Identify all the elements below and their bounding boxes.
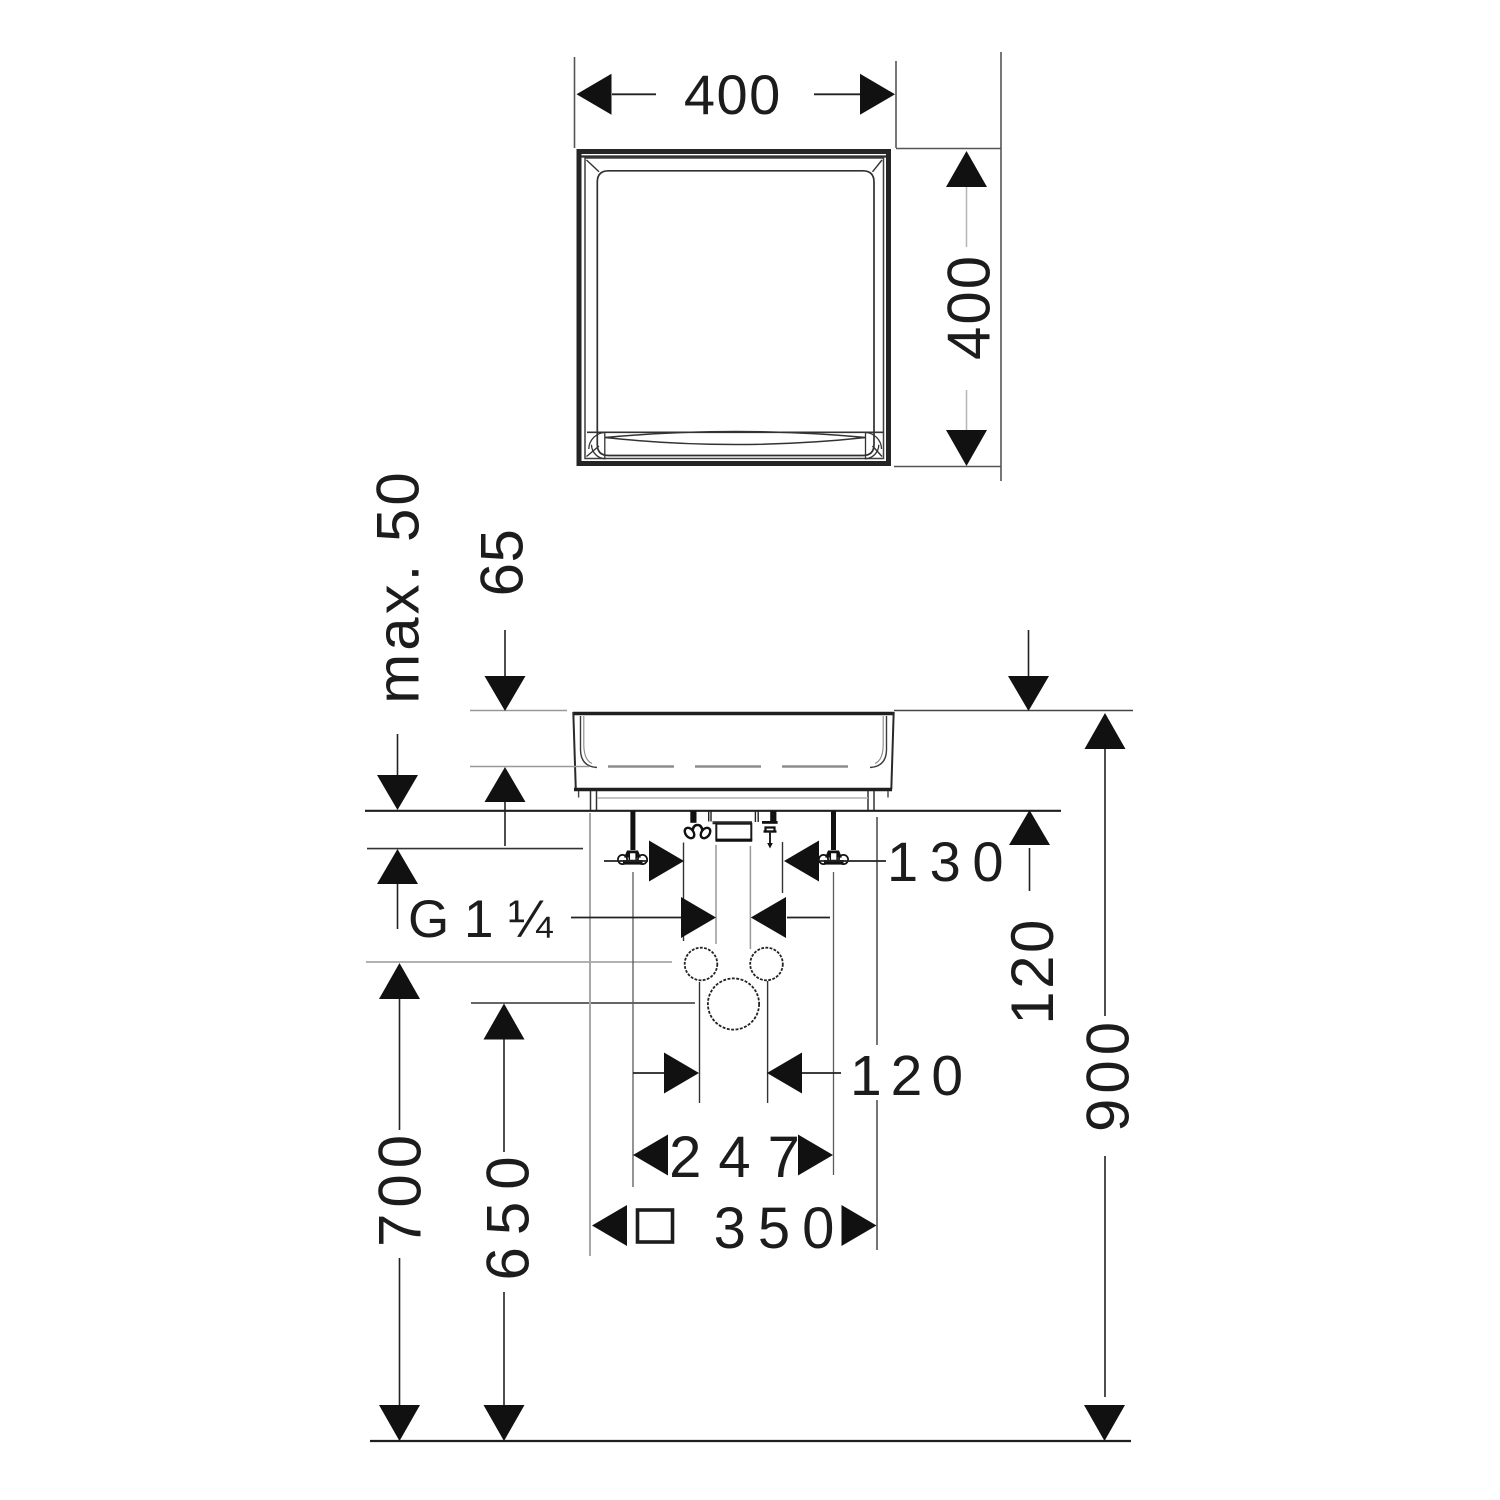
dimension G 1 1/4: dimension line — [571, 917, 830, 919]
plan view: bowl floor corner arcs right — [865, 432, 882, 459]
svg-text:120: 120 — [850, 1044, 972, 1108]
dimension 120: left arrowhead — [664, 1053, 699, 1094]
dimension 130: right arrowhead — [784, 841, 819, 882]
faucet hole right (dashed circle) — [750, 948, 783, 981]
dimension G 1 1/4: right arrowhead — [751, 897, 786, 938]
elevation: basin right inner wall curve — [870, 716, 887, 768]
drain: right wing nut stem tip — [767, 843, 773, 849]
dimension 400 (right height): bottom extension line — [894, 466, 1001, 468]
drain: tailpiece nut box — [716, 824, 751, 840]
drain: right wing nut stem — [769, 832, 771, 844]
plan view: corner chamfer BR — [873, 446, 883, 457]
elevation: basin left outer wall — [573, 712, 576, 790]
dimension 120 right: upper shaft and down arrowhead — [1028, 630, 1030, 678]
dimension 400 (right height): outer boundary line — [1000, 52, 1002, 481]
dimension 120: dimension line — [633, 1072, 841, 1074]
dimension G 1 1/4: left arrowhead — [681, 897, 716, 938]
level line: drain center — [471, 1002, 695, 1004]
svg-text:650: 650 — [475, 1144, 542, 1280]
svg-text:130: 130 — [887, 830, 1015, 893]
elevation: basin bottom edge — [574, 788, 892, 791]
dimension 700: value label — [367, 1129, 434, 1247]
svg-text:400: 400 — [684, 63, 782, 126]
dimension 650: up arrowhead at drain level — [484, 1004, 525, 1040]
dimension 650: value label — [475, 1144, 542, 1280]
drain: right mounting rod — [770, 811, 776, 824]
dimension 400 (right height): top arrowhead — [946, 151, 987, 187]
svg-text:65: 65 — [469, 529, 536, 597]
level line: faucet holes — [366, 961, 672, 963]
elevation: basin right rim inner line — [875, 716, 883, 764]
plan view: basin outer rim — [579, 152, 889, 464]
dimension 400 (top width): left extension line — [574, 57, 576, 148]
dimension 120: right arrowhead — [767, 1053, 802, 1094]
dimension 900: up arrowhead at basin top level — [1085, 713, 1126, 749]
plan view: corner chamfer BL — [587, 446, 600, 457]
dimension 400 (right height): bottom arrowhead — [946, 430, 987, 466]
bolt right: wing nut — [819, 851, 848, 865]
bolt right: shaft — [831, 811, 836, 850]
extension line: 130 left — [683, 843, 685, 942]
plan view: bowl floor corner arcs left — [589, 432, 606, 459]
elevation: basin right outer wall — [891, 712, 893, 790]
elevation: basin top edge — [573, 712, 894, 716]
dimension 400 (right height): dimension line — [966, 187, 968, 430]
floor line — [370, 1440, 1131, 1442]
dimension 65: lower shaft and up arrowhead — [504, 802, 506, 846]
drain: flange — [713, 822, 753, 824]
dimension 400 (top width): right extension line — [895, 61, 897, 148]
elevation: base outer stub left — [578, 791, 580, 798]
dimension 400 (top): right arrowhead — [860, 74, 895, 115]
dimension max. 50: upper shaft and down arrowhead — [397, 734, 399, 778]
dimension 900: down arrowhead at floor — [1084, 1405, 1125, 1441]
elevation: base shadow line — [597, 797, 868, 799]
drain: body lines left pair — [709, 811, 711, 822]
level line: basin top right — [894, 710, 1133, 712]
plan view: bowl floor slope curve upper — [605, 432, 866, 438]
dimension 65: upper shaft and down arrowhead — [504, 630, 506, 678]
dimension 350: left arrowhead — [592, 1205, 627, 1246]
elevation: hidden bowl bottom dashed line — [608, 765, 853, 767]
dimension 120 right: lower shaft and up arrowhead — [1029, 848, 1031, 891]
dimension 700: down arrowhead at floor — [379, 1405, 420, 1441]
elevation: base foot right lines — [868, 791, 874, 810]
level line: bowl bottom left — [470, 766, 589, 768]
extension line: 120 right (below faucet hole) — [767, 981, 769, 1103]
dimension 350: square symbol — [638, 1210, 673, 1242]
svg-text:G 1 ¼: G 1 ¼ — [408, 890, 553, 949]
dimension 650: down arrowhead at floor — [484, 1405, 525, 1441]
dimension 400 (right height): value label — [936, 254, 1003, 360]
dimension 400 (top): dimension line — [612, 93, 861, 95]
drain: tailpiece nut box bottom edge — [716, 839, 753, 842]
dimension 247: right arrowhead — [798, 1135, 833, 1176]
elevation: base outer stub right — [887, 791, 889, 798]
dimension max. 50: value label — [365, 469, 432, 703]
dimension 130: dimension line — [604, 860, 886, 862]
plan view: corner chamfer TL — [587, 160, 600, 172]
dimension 900: shaft — [1104, 749, 1106, 1397]
dimension 120 right: value label — [999, 917, 1066, 1025]
drain hole (dashed circle) — [708, 978, 759, 1029]
elevation: basin left inner wall curve — [581, 716, 598, 768]
level line: basin top left — [470, 710, 567, 712]
drain: left wing nut — [683, 825, 712, 840]
elevation: base foot left lines — [591, 791, 597, 810]
svg-text:247: 247 — [669, 1125, 817, 1190]
dimension 400 (top): left arrowhead — [577, 74, 612, 115]
extension line: 130 right — [782, 842, 784, 893]
bolt left: lower extension line — [632, 872, 634, 1187]
dimension 900: value label — [1075, 1017, 1142, 1132]
drain: left mounting rod — [690, 811, 696, 823]
extension line: 120 left (below faucet hole) — [699, 982, 701, 1103]
svg-text:400: 400 — [936, 254, 1003, 360]
level line: max.50 lower reference — [367, 848, 583, 850]
plan view: bowl floor slope curve lower — [605, 438, 866, 445]
reference line: left vertical gray — [589, 813, 591, 1256]
dimension 247: left arrowhead — [633, 1135, 668, 1176]
dimension 65: value label — [469, 529, 536, 597]
bolt right: lower extension line — [833, 872, 835, 1175]
wall line — [365, 810, 1061, 812]
extension line: G 1 1/4 right — [749, 846, 751, 949]
dimension 350: right arrowhead — [842, 1205, 877, 1246]
bolt left: wing nut — [618, 851, 647, 865]
faucet hole left (dashed circle) — [685, 948, 718, 981]
svg-text:120: 120 — [999, 917, 1066, 1025]
svg-text:900: 900 — [1075, 1017, 1142, 1132]
dimension 700: shaft — [399, 999, 401, 1406]
bolt left: shaft — [630, 811, 635, 850]
drain: body lines right pair — [755, 811, 758, 822]
extension line: G 1 1/4 left — [715, 845, 717, 944]
elevation: basin left rim inner line — [584, 716, 592, 764]
reference line: right vertical 350 extension — [876, 817, 878, 1250]
dimension 130: left arrowhead — [649, 841, 684, 882]
dimension 700: up arrowhead at faucet level — [379, 963, 420, 999]
plan view: rim inner edge — [585, 158, 884, 459]
plan view: corner chamfer TR — [873, 160, 883, 172]
svg-text:350: 350 — [714, 1196, 847, 1261]
svg-text:max. 50: max. 50 — [365, 469, 432, 703]
drain: right rod flare — [762, 821, 778, 824]
dimension 400 (right height): top extension line — [896, 148, 1001, 150]
svg-text:700: 700 — [367, 1129, 434, 1247]
plan view: bowl inner wall — [597, 171, 874, 456]
drain: right wing nut (truncated) — [764, 828, 777, 832]
dimension max. 50: lower shaft and up arrowhead — [397, 883, 399, 929]
dimension 650: shaft — [503, 1040, 505, 1407]
plan view: bowl floor top edge line — [587, 431, 883, 433]
